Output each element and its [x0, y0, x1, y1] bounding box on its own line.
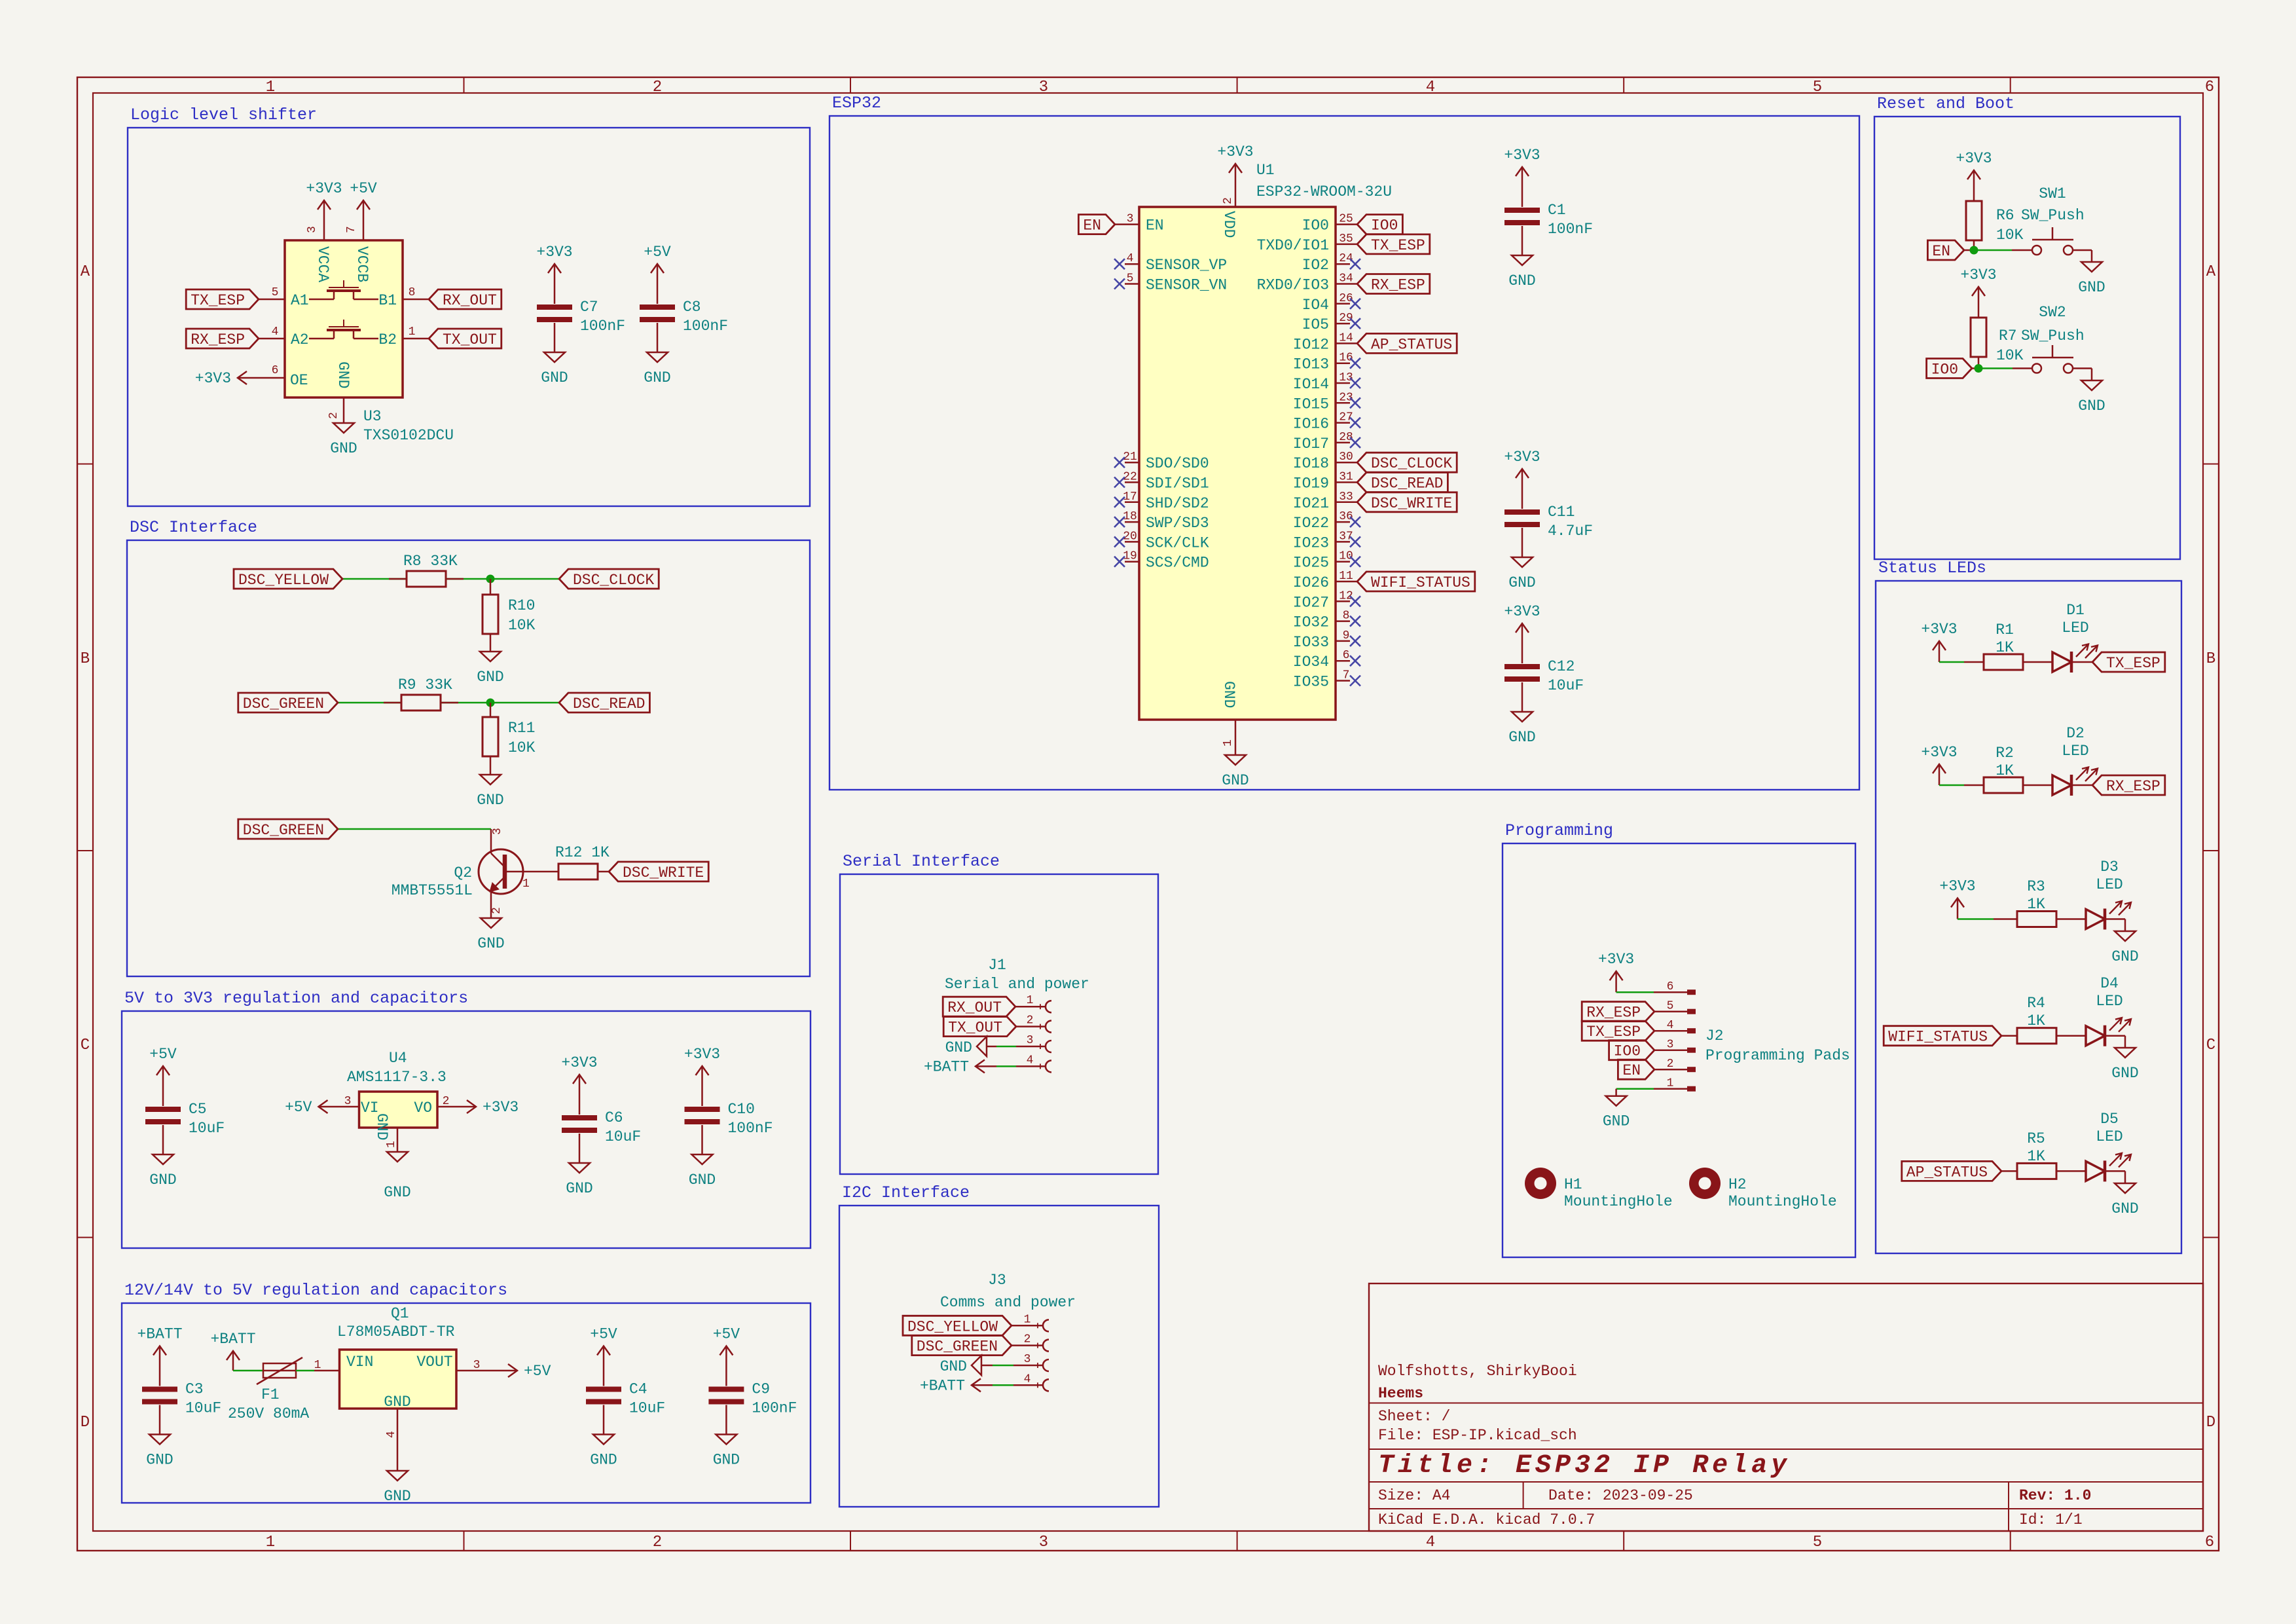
power +3V3 — [195, 370, 259, 387]
capacitor C1 — [1504, 188, 1593, 255]
fuse F1 250V 80mA — [228, 1357, 309, 1422]
capacitor C6 — [562, 1096, 641, 1163]
svg-text:+5V: +5V — [350, 180, 377, 197]
net label TX_ESP — [2092, 652, 2165, 672]
ground — [2078, 262, 2105, 296]
U3 internal MOSFET channel 1 — [309, 280, 378, 299]
svg-text:TX_ESP: TX_ESP — [2106, 655, 2160, 672]
U1 pin SCS/CMD stub — [1125, 561, 1139, 563]
frame column ticks — [464, 77, 2011, 1551]
net label RX_ESP — [186, 329, 259, 348]
no-connect IO2 — [1350, 259, 1360, 269]
svg-text:GND: GND — [384, 1184, 410, 1201]
svg-text:B2: B2 — [378, 331, 397, 348]
svg-text:Serial Interface: Serial Interface — [843, 852, 1000, 871]
no-connect IO4 — [1350, 299, 1360, 309]
svg-text:GND: GND — [373, 1113, 390, 1140]
svg-text:TX_ESP: TX_ESP — [191, 292, 245, 309]
net label AP_STATUS — [1902, 1161, 2001, 1181]
ground — [1603, 1096, 1630, 1130]
connector J3 Comms and power — [940, 1272, 1076, 1311]
power +BATT — [210, 1331, 255, 1371]
svg-text:A: A — [2206, 263, 2216, 281]
svg-text:+3V3: +3V3 — [1960, 267, 1996, 284]
wire junction to R11 — [490, 703, 492, 717]
svg-text:VCCA: VCCA — [314, 246, 331, 282]
svg-text:3: 3 — [1039, 1534, 1048, 1551]
U1 pin SHD/SD2 stub — [1125, 502, 1139, 504]
wire +3V3 to R6 — [1973, 191, 1975, 201]
power +3V3 — [455, 1099, 519, 1116]
svg-text:4.7uF: 4.7uF — [1548, 523, 1593, 540]
net label DSC_WRITE — [609, 862, 708, 881]
U1 pin IO27 stub — [1336, 600, 1350, 602]
svg-text:D: D — [2206, 1414, 2215, 1431]
wire D2 to RX_ESP — [2071, 784, 2092, 786]
svg-text:F1: F1 — [261, 1386, 280, 1403]
no-connect SWP/SD3 — [1114, 517, 1125, 527]
U3 pin names — [290, 246, 397, 389]
svg-text:C4: C4 — [629, 1381, 647, 1398]
net label DSC_WRITE — [1357, 492, 1457, 512]
U3 VCCA pin wire — [323, 221, 325, 240]
net label DSC_CLOCK — [1357, 452, 1457, 472]
U1 pin IO13 stub — [1336, 362, 1350, 364]
svg-text:C12: C12 — [1548, 658, 1575, 675]
net label TX_ESP — [186, 289, 259, 309]
svg-text:IO27: IO27 — [1293, 594, 1329, 611]
svg-text:RX_ESP: RX_ESP — [1586, 1005, 1641, 1022]
net label DSC_GREEN — [238, 693, 338, 712]
svg-text:1: 1 — [409, 325, 416, 339]
section box Reset and Boot — [1874, 94, 2180, 559]
ground — [590, 1435, 617, 1469]
svg-text:VDD: VDD — [1220, 211, 1237, 238]
wire R10 to ground — [490, 634, 492, 652]
U1 pin IO21 wire — [1336, 502, 1357, 504]
svg-text:IO2: IO2 — [1302, 257, 1329, 274]
svg-text:DSC_YELLOW: DSC_YELLOW — [238, 572, 329, 589]
R9 pin stub — [441, 702, 458, 704]
svg-text:4: 4 — [1426, 1534, 1435, 1551]
net label TX_ESP — [1357, 234, 1430, 254]
svg-text:GND: GND — [1220, 681, 1237, 708]
svg-text:U1: U1 — [1256, 162, 1275, 179]
U1 right pin numbers — [1339, 213, 1353, 682]
power +3V3 — [1504, 449, 1540, 490]
svg-text:R5: R5 — [2027, 1130, 2045, 1147]
section box Status LEDs — [1876, 559, 2181, 1253]
svg-text:C6: C6 — [605, 1109, 623, 1126]
section box Programming — [1503, 821, 1855, 1257]
U1 pin IO33 stub — [1336, 640, 1350, 642]
svg-text:RX_ESP: RX_ESP — [1371, 277, 1425, 294]
J2 pin 1 wire and pad — [1654, 1088, 1687, 1090]
no-connect IO25 — [1350, 557, 1360, 567]
svg-text:Wolfshotts, ShirkyBooi: Wolfshotts, ShirkyBooi — [1378, 1363, 1577, 1380]
resistor R9 — [398, 676, 452, 710]
svg-text:IO23: IO23 — [1293, 534, 1329, 551]
resistor R5 — [2017, 1130, 2056, 1179]
svg-text:R3: R3 — [2027, 878, 2045, 895]
wire +3V3 to R7 — [1978, 308, 1980, 318]
J3 pin 2 wire — [1011, 1344, 1044, 1346]
U1 pin SDI/SD1 stub — [1125, 481, 1139, 483]
U1 pin IO22 stub — [1336, 521, 1350, 523]
no-connect IO5 — [1350, 318, 1360, 329]
svg-text:DSC_CLOCK: DSC_CLOCK — [573, 572, 654, 589]
ground — [384, 1152, 410, 1201]
net label TX_OUT — [429, 329, 501, 348]
svg-text:1: 1 — [1024, 1313, 1031, 1326]
svg-text:IO18: IO18 — [1293, 455, 1329, 472]
resistor R2 — [1984, 745, 2023, 793]
net label EN — [1078, 215, 1115, 234]
svg-text:+3V3: +3V3 — [1921, 744, 1957, 761]
svg-text:IO34: IO34 — [1293, 654, 1329, 671]
svg-text:4: 4 — [385, 1431, 398, 1438]
svg-text:SDI/SD1: SDI/SD1 — [1146, 475, 1209, 492]
svg-text:A2: A2 — [291, 331, 309, 348]
svg-text:6: 6 — [2205, 79, 2214, 96]
svg-text:VIN: VIN — [346, 1354, 373, 1371]
resistor R4 — [2017, 995, 2056, 1044]
svg-text:D5: D5 — [2100, 1111, 2119, 1128]
svg-text:TX_ESP: TX_ESP — [1371, 237, 1425, 254]
no-connect IO34 — [1350, 655, 1360, 666]
U1 pin IO12 wire — [1336, 342, 1357, 344]
svg-text:3: 3 — [1027, 1034, 1034, 1047]
ground — [566, 1163, 592, 1197]
svg-text:+3V3: +3V3 — [561, 1054, 597, 1071]
no-connect IO14 — [1350, 378, 1360, 388]
net label TX_OUT — [943, 1017, 1016, 1037]
svg-text:LED: LED — [2062, 619, 2088, 637]
R9 pin stub — [384, 702, 401, 704]
U1 VDD pin name and number — [1220, 197, 1237, 238]
transistor Q2 MMBT5551L — [392, 828, 558, 918]
no-connect IO23 — [1350, 536, 1360, 547]
wire +3V3 to R2 — [1939, 784, 1964, 786]
svg-text:3: 3 — [1667, 1039, 1674, 1052]
U1 pin IO14 stub — [1336, 382, 1350, 384]
svg-text:GND: GND — [689, 1172, 716, 1189]
svg-text:5V to 3V3 regulation and capac: 5V to 3V3 regulation and capacitors — [124, 989, 468, 1008]
svg-text:C1: C1 — [1548, 202, 1566, 219]
U3 internal MOSFET channel 2 — [309, 320, 378, 339]
section box DSC Interface — [127, 518, 810, 976]
ground — [1222, 755, 1248, 789]
junction — [486, 699, 495, 707]
power +BATT — [924, 1058, 996, 1075]
svg-text:IO5: IO5 — [1302, 316, 1329, 333]
wire +BATT to fuse F1 — [233, 1370, 263, 1372]
power +3V3 — [684, 1046, 720, 1087]
wire IO0 to switch SW2 — [1972, 367, 1978, 369]
svg-text:VOUT: VOUT — [416, 1354, 452, 1371]
svg-text:B1: B1 — [378, 292, 397, 309]
frame row letters — [81, 263, 2216, 1431]
svg-text:ESP32: ESP32 — [832, 94, 881, 113]
connector J2 Programming Pads — [1705, 1027, 1850, 1064]
net label DSC_YELLOW — [903, 1316, 1011, 1335]
svg-text:GND: GND — [477, 669, 503, 686]
svg-text:IO32: IO32 — [1293, 614, 1329, 631]
svg-text:SCS/CMD: SCS/CMD — [1146, 555, 1209, 572]
U1 pin IO4 stub — [1336, 303, 1350, 305]
svg-text:DSC Interface: DSC Interface — [130, 518, 257, 537]
svg-text:5: 5 — [1813, 1534, 1822, 1551]
resistor R11 — [483, 717, 536, 756]
svg-text:100nF: 100nF — [580, 318, 625, 335]
svg-text:AP_STATUS: AP_STATUS — [1371, 336, 1452, 353]
svg-text:+5V: +5V — [644, 244, 671, 261]
svg-text:DSC_WRITE: DSC_WRITE — [623, 864, 704, 881]
ground — [477, 918, 504, 952]
net label IO0 — [1927, 359, 1972, 378]
ground — [945, 1037, 987, 1056]
no-connect SENSOR_VN — [1114, 279, 1125, 289]
Q1 VOUT pin wire — [456, 1370, 496, 1372]
ground — [689, 1154, 716, 1189]
section box I2C Interface — [839, 1183, 1159, 1507]
no-connect IO15 — [1350, 397, 1360, 408]
svg-text:MMBT5551L: MMBT5551L — [392, 882, 473, 899]
power +3V3 — [1598, 951, 1634, 992]
svg-text:Logic level shifter: Logic level shifter — [130, 105, 317, 124]
U1 pin SDO/SD0 stub — [1125, 462, 1139, 464]
ground — [384, 1471, 410, 1505]
LED D1 — [2052, 602, 2098, 673]
U1 pin IO23 stub — [1336, 541, 1350, 543]
svg-text:+5V: +5V — [285, 1099, 312, 1116]
connector J1 Serial and power — [945, 957, 1089, 993]
net label RX_ESP — [2092, 775, 2165, 795]
no-connect SDI/SD1 — [1114, 477, 1125, 488]
svg-text:GND: GND — [477, 935, 504, 952]
J2 pin numbers — [1667, 980, 1674, 1090]
wire R7 to junction — [1978, 357, 1980, 369]
svg-text:10uF: 10uF — [189, 1120, 225, 1137]
svg-text:D3: D3 — [2100, 858, 2119, 876]
svg-text:DSC_YELLOW: DSC_YELLOW — [907, 1318, 998, 1335]
power +3V3 — [1504, 147, 1540, 188]
wire SW2 to ground — [2073, 367, 2092, 369]
J3 pin 1 wire — [1011, 1325, 1044, 1327]
J2 pin 2 wire and pad — [1654, 1069, 1687, 1071]
power +5V — [644, 244, 671, 285]
svg-text:EN: EN — [1146, 217, 1164, 234]
svg-text:6: 6 — [272, 364, 279, 377]
ground — [541, 352, 568, 386]
net label DSC_READ — [559, 693, 649, 712]
svg-text:Heems: Heems — [1378, 1385, 1423, 1402]
svg-text:MountingHole: MountingHole — [1564, 1193, 1673, 1210]
capacitor C7 — [537, 285, 625, 352]
net label IO0 — [1609, 1041, 1654, 1060]
J2 pin 6 wire and pad — [1654, 991, 1687, 993]
svg-text:GND: GND — [1222, 772, 1248, 789]
svg-text:IO25: IO25 — [1293, 555, 1329, 572]
LED D3 — [2086, 858, 2131, 930]
wire GND to J2 pin 1 — [1616, 1088, 1654, 1090]
svg-text:2: 2 — [653, 79, 662, 96]
svg-text:+3V3: +3V3 — [483, 1099, 519, 1116]
svg-text:C8: C8 — [683, 299, 701, 316]
J1 pin 4 wire — [996, 1065, 1016, 1067]
power +3V3 — [1217, 143, 1253, 185]
ground — [2078, 380, 2105, 415]
U1 pin IO25 stub — [1336, 561, 1350, 563]
no-connect IO17 — [1350, 437, 1360, 448]
svg-text:1K: 1K — [2027, 896, 2045, 913]
capacitor C10 — [685, 1087, 773, 1154]
U3 pin B1 wire — [403, 299, 429, 301]
svg-text:R8 33K: R8 33K — [403, 553, 458, 570]
net label RX_OUT — [943, 997, 1015, 1016]
U1 pin IO26 wire — [1336, 581, 1357, 583]
IC U4 AMS1117-3.3 body — [359, 1092, 438, 1128]
svg-text:IO19: IO19 — [1293, 475, 1329, 492]
net label WIFI_STATUS — [1357, 572, 1475, 591]
J1 pin 3 wire — [987, 1046, 996, 1048]
ground — [644, 352, 670, 386]
svg-text:DSC_READ: DSC_READ — [1371, 475, 1443, 492]
svg-text:100nF: 100nF — [1548, 221, 1593, 238]
wire R2 to D2 — [2023, 784, 2052, 786]
svg-text:3: 3 — [306, 226, 319, 233]
Q1 GND pin wire — [397, 1409, 399, 1471]
net label RX_ESP — [1582, 1002, 1654, 1022]
svg-text:GND: GND — [1508, 272, 1535, 289]
svg-text:1K: 1K — [1995, 639, 2014, 656]
U4 VI pin wire — [340, 1106, 359, 1108]
svg-text:Sheet: /: Sheet: / — [1378, 1408, 1450, 1425]
wire junction to R10 — [490, 579, 492, 595]
net label DSC_GREEN — [912, 1336, 1011, 1356]
svg-text:GND: GND — [2111, 948, 2138, 965]
svg-text:GND: GND — [2078, 397, 2105, 415]
U1 GND pin wire — [1235, 720, 1237, 755]
svg-text:100nF: 100nF — [752, 1400, 797, 1417]
svg-text:LED: LED — [2096, 876, 2123, 893]
svg-text:VCCB: VCCB — [354, 246, 371, 282]
wire D4 to ground — [2105, 1035, 2125, 1037]
svg-text:GND: GND — [1508, 574, 1535, 591]
section box 12V/14V to 5V regulation and capacitors — [122, 1281, 811, 1503]
svg-text:H2: H2 — [1728, 1176, 1747, 1193]
net label IO0 — [1357, 215, 1402, 234]
svg-text:R2: R2 — [1995, 745, 2014, 762]
svg-text:SDO/SD0: SDO/SD0 — [1146, 455, 1209, 472]
J2 pin 3 wire and pad — [1654, 1049, 1687, 1051]
svg-text:IO4: IO4 — [1302, 297, 1329, 314]
svg-text:2: 2 — [490, 907, 503, 914]
capacitor C3 — [142, 1367, 221, 1435]
svg-text:10K: 10K — [1996, 227, 2024, 244]
switch SW1 SW_Push — [2032, 227, 2073, 255]
svg-text:R7: R7 — [1999, 327, 2017, 344]
frame column numbers — [266, 79, 2214, 1551]
svg-text:IO17: IO17 — [1293, 435, 1329, 452]
no-connect SCK/CLK — [1114, 536, 1125, 547]
svg-text:DSC_WRITE: DSC_WRITE — [1371, 495, 1452, 512]
power +5V — [285, 1099, 339, 1116]
U1 right pin names — [1257, 217, 1329, 691]
net label DSC_READ — [1357, 473, 1448, 492]
wire R11 to ground — [490, 756, 492, 775]
svg-text:D1: D1 — [2066, 602, 2085, 619]
svg-text:1: 1 — [1027, 994, 1034, 1007]
section box Serial Interface — [840, 852, 1158, 1174]
net label EN — [1927, 240, 1964, 260]
svg-text:IO14: IO14 — [1293, 376, 1329, 393]
net label WIFI_STATUS — [1884, 1026, 2001, 1046]
svg-text:J1: J1 — [988, 957, 1006, 974]
svg-text:OE: OE — [290, 372, 308, 389]
no-connect SHD/SD2 — [1114, 497, 1125, 507]
ground — [2111, 1048, 2138, 1082]
U1 pin IO2 stub — [1336, 263, 1350, 265]
svg-text:+3V3: +3V3 — [195, 370, 231, 387]
ground — [2111, 1183, 2138, 1217]
ground — [477, 775, 503, 809]
svg-text:2: 2 — [1222, 197, 1235, 204]
svg-text:ESP32-WROOM-32U: ESP32-WROOM-32U — [1256, 183, 1392, 200]
svg-text:KiCad E.D.A. kicad 7.0.7: KiCad E.D.A. kicad 7.0.7 — [1378, 1511, 1595, 1528]
svg-text:+3V3: +3V3 — [1504, 449, 1540, 466]
junction — [1975, 364, 1983, 373]
no-connect IO33 — [1350, 636, 1360, 646]
ground — [1508, 557, 1535, 591]
svg-text:GND: GND — [945, 1039, 972, 1056]
svg-text:D2: D2 — [2066, 725, 2085, 742]
LED D5 — [2086, 1111, 2131, 1181]
IC U3 TXS0102DCU body — [285, 240, 403, 397]
U4 pin numbers — [344, 1095, 450, 1148]
svg-text:TX_OUT: TX_OUT — [443, 331, 497, 348]
wire EN to switch SW1 — [1964, 249, 1974, 251]
svg-text:+5V: +5V — [149, 1046, 177, 1063]
svg-text:WIFI_STATUS: WIFI_STATUS — [1888, 1029, 1988, 1046]
svg-text:RX_OUT: RX_OUT — [947, 999, 1002, 1016]
svg-text:Q2: Q2 — [454, 864, 472, 881]
svg-text:GND: GND — [1603, 1113, 1630, 1130]
svg-text:Programming Pads: Programming Pads — [1705, 1047, 1850, 1064]
svg-text:IO22: IO22 — [1293, 515, 1329, 532]
wire +3V3 to R3 — [1958, 918, 1994, 920]
svg-text:J3: J3 — [988, 1272, 1006, 1289]
IC U1 ESP32-WROOM-32U body — [1139, 207, 1336, 720]
wire +3V3 to J2 pin 6 — [1616, 991, 1654, 993]
svg-text:TX_OUT: TX_OUT — [948, 1020, 1002, 1037]
svg-text:10uF: 10uF — [605, 1128, 641, 1145]
net label RX_ESP — [1357, 274, 1430, 294]
wire R12 to DSC_WRITE — [598, 871, 609, 873]
svg-text:2: 2 — [653, 1534, 662, 1551]
svg-text:GND: GND — [2078, 279, 2105, 296]
svg-text:C: C — [81, 1037, 90, 1054]
J3 pin 4 wire — [993, 1384, 1013, 1386]
capacitor C4 — [586, 1367, 665, 1435]
svg-text:Id: 1/1: Id: 1/1 — [2019, 1511, 2083, 1528]
title block texts — [1378, 1363, 2091, 1528]
svg-text:GND: GND — [940, 1358, 967, 1375]
svg-text:2: 2 — [1667, 1058, 1674, 1071]
U4 VO pin wire — [437, 1106, 455, 1108]
mounting hole H2 — [1689, 1168, 1837, 1210]
wire DSC_YELLOW to R8 — [342, 578, 407, 580]
